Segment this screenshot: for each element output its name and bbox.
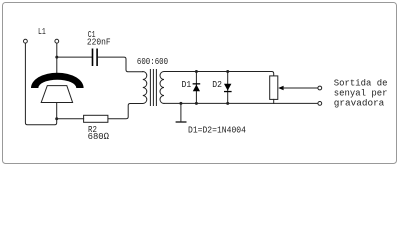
- svg-text:D1=D2=1N4004: D1=D2=1N4004: [188, 125, 246, 136]
- svg-text:D2: D2: [212, 80, 222, 91]
- wire: node A to R2: [57, 118, 84, 120]
- wire: left terminal down: [25, 43, 56, 125]
- transformer T primary winding: [143, 72, 147, 104]
- node: D2 top junction: [226, 70, 229, 73]
- wire: pot bottom stub: [273, 99, 275, 103]
- capacitor C1: [93, 49, 98, 65]
- potentiometer P1 body: [270, 76, 278, 100]
- terminal T2 (L1 right): [55, 39, 59, 43]
- svg-text:senyal per: senyal per: [334, 89, 388, 99]
- wire: wiper to output terminal: [283, 87, 318, 89]
- svg-text:Sortida de: Sortida de: [334, 79, 388, 89]
- node: D1 top junction: [195, 70, 198, 73]
- wire: right terminal down to node: [56, 43, 58, 73]
- wire: earpiece bottom to node A: [56, 103, 58, 120]
- wire: secondary top rail: [164, 72, 274, 76]
- wire: node B to C1: [57, 56, 92, 58]
- svg-text:D1: D1: [182, 80, 192, 91]
- transformer secondary winding: [160, 72, 164, 104]
- node A junction: [55, 117, 58, 120]
- terminal T1 (L1 left): [24, 39, 28, 43]
- border frame: [3, 3, 397, 164]
- wire: secondary bottom rail: [164, 102, 318, 104]
- terminal OUT-: [318, 102, 322, 106]
- node: D2 bottom junction: [226, 102, 229, 105]
- svg-text:220nF: 220nF: [87, 37, 111, 48]
- wire: primary bottom to R2: [108, 104, 143, 119]
- transformer core: [150, 70, 156, 106]
- resistor R2: [84, 115, 108, 122]
- node B junction: [55, 56, 58, 59]
- node: ground junction: [179, 102, 182, 105]
- earpiece cone (trapezoid): [41, 86, 72, 103]
- pot wiper arrow: [278, 86, 283, 91]
- earpiece dome inner carve: [38, 80, 76, 88]
- svg-text:gravadora: gravadora: [334, 99, 385, 109]
- svg-text:680Ω: 680Ω: [88, 131, 110, 142]
- terminal OUT+: [318, 86, 322, 90]
- diode D1: [195, 72, 197, 104]
- svg-text:L1: L1: [38, 27, 46, 38]
- svg-text:600:600: 600:600: [137, 56, 168, 67]
- diode D2: [227, 72, 229, 104]
- ground: [180, 103, 182, 121]
- node: D1 bottom junction: [195, 102, 198, 105]
- earpiece L1 dome: [31, 73, 84, 88]
- wire: C1 to transformer primary top: [98, 57, 143, 72]
